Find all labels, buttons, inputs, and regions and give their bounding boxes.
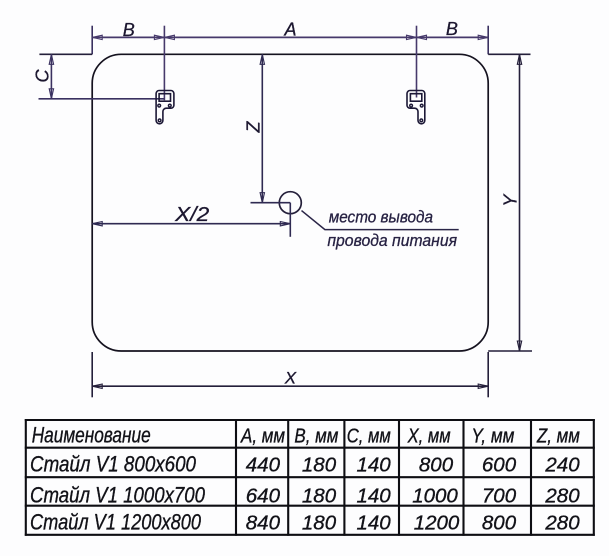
svg-text:A: A bbox=[283, 19, 296, 39]
extension line left bracket axis bbox=[163, 26, 165, 101]
table col line C bbox=[343, 419, 345, 536]
extension line top-left for C bbox=[39, 53, 92, 55]
svg-text:840: 840 bbox=[246, 511, 281, 534]
svg-text:A, мм: A, мм bbox=[239, 424, 285, 447]
arrow B2 right bbox=[478, 35, 488, 39]
svg-text:600: 600 bbox=[482, 454, 517, 477]
arrow Y top bbox=[517, 54, 521, 64]
top dimension line (B,A,B) bbox=[92, 36, 488, 38]
svg-text:Z, мм: Z, мм bbox=[536, 424, 580, 447]
svg-text:Стайл V1 1000x700: Стайл V1 1000x700 bbox=[30, 483, 206, 508]
arrow B left bbox=[92, 35, 102, 39]
arrow Z bottom bbox=[260, 193, 264, 203]
cable outlet circle bbox=[279, 192, 301, 214]
table col line B bbox=[287, 419, 289, 536]
table col line A bbox=[235, 419, 237, 536]
svg-text:140: 140 bbox=[356, 485, 391, 508]
table top border bbox=[25, 419, 595, 421]
table left border bbox=[25, 419, 27, 536]
arrow Z top bbox=[260, 54, 264, 64]
svg-text:140: 140 bbox=[356, 511, 391, 534]
table row line 3 bbox=[25, 505, 595, 507]
table col line X bbox=[398, 419, 400, 536]
table texts bbox=[30, 422, 580, 534]
svg-text:B: B bbox=[446, 19, 458, 39]
extension line right bracket axis bbox=[416, 26, 418, 98]
left bracket bbox=[156, 91, 174, 124]
arrow X/2 left bbox=[92, 222, 102, 226]
arrow Y bottom bbox=[517, 341, 521, 351]
centerline vertical below circle bbox=[289, 203, 291, 237]
svg-text:280: 280 bbox=[544, 511, 580, 534]
extension left bottom for X bbox=[91, 352, 93, 397]
svg-text:180: 180 bbox=[302, 511, 337, 534]
arrow A left bbox=[164, 35, 174, 39]
svg-text:B, мм: B, мм bbox=[294, 424, 338, 447]
centerline horizontal at circle bbox=[251, 202, 291, 204]
arrow X left bbox=[92, 384, 102, 388]
table right border bbox=[593, 419, 595, 536]
svg-text:C: C bbox=[32, 69, 52, 83]
arrow X/2 right bbox=[280, 222, 290, 226]
C dimension line bbox=[50, 54, 52, 99]
svg-text:640: 640 bbox=[246, 485, 281, 508]
svg-text:Y, мм: Y, мм bbox=[471, 424, 514, 447]
extension top-right for Y bbox=[488, 53, 530, 55]
svg-text:Стайл V1 800x600: Стайл V1 800x600 bbox=[30, 452, 197, 477]
svg-text:Наименование: Наименование bbox=[32, 422, 151, 447]
svg-text:800: 800 bbox=[482, 511, 517, 534]
svg-text:X/2: X/2 bbox=[174, 204, 209, 226]
svg-text:180: 180 bbox=[302, 485, 337, 508]
svg-text:X: X bbox=[284, 369, 297, 388]
extension bottom-right for Y bbox=[488, 350, 532, 352]
Y dimension line bbox=[519, 54, 521, 351]
right bracket bbox=[407, 91, 425, 124]
arrow C top bbox=[49, 54, 53, 64]
X dimension line bbox=[92, 385, 488, 387]
leader line to cable note bbox=[302, 211, 459, 230]
extension line right edge top bbox=[487, 26, 489, 55]
svg-text:1200: 1200 bbox=[414, 511, 460, 534]
svg-text:700: 700 bbox=[482, 485, 517, 508]
table grid bbox=[25, 419, 595, 536]
table col line Z bbox=[530, 419, 532, 536]
arrow C bottom bbox=[49, 89, 53, 99]
svg-text:X, мм: X, мм bbox=[407, 424, 451, 447]
extension right bottom for X bbox=[487, 352, 489, 397]
extension line left edge top bbox=[91, 26, 93, 55]
svg-text:1000: 1000 bbox=[412, 485, 458, 508]
svg-text:C, мм: C, мм bbox=[347, 424, 391, 447]
svg-text:440: 440 bbox=[246, 454, 281, 477]
extension line lower for C through bracket bbox=[39, 98, 165, 100]
table col line Y bbox=[462, 419, 464, 536]
svg-text:Стайл V1 1200x800: Стайл V1 1200x800 bbox=[30, 509, 202, 534]
X/2 dimension line bbox=[92, 223, 290, 225]
svg-text:Y: Y bbox=[501, 193, 521, 207]
svg-text:280: 280 bbox=[544, 485, 580, 508]
panel outline (mirror body) bbox=[92, 54, 488, 351]
arrow B2 left bbox=[417, 35, 427, 39]
arrow B right bbox=[154, 35, 164, 39]
arrow X right bbox=[478, 384, 488, 388]
arrow A right bbox=[407, 35, 417, 39]
svg-text:240: 240 bbox=[544, 454, 580, 477]
Z dimension line bbox=[261, 54, 263, 202]
svg-text:140: 140 bbox=[356, 454, 391, 477]
table bottom border bbox=[25, 534, 595, 536]
table row line 2 bbox=[25, 476, 595, 478]
svg-text:место вывода: место вывода bbox=[329, 208, 433, 226]
svg-text:B: B bbox=[123, 20, 135, 40]
svg-text:180: 180 bbox=[302, 454, 337, 477]
table row line 1 bbox=[25, 447, 595, 449]
svg-text:провода питания: провода питания bbox=[327, 232, 457, 250]
svg-text:800: 800 bbox=[419, 454, 454, 477]
svg-text:Z: Z bbox=[244, 121, 264, 134]
